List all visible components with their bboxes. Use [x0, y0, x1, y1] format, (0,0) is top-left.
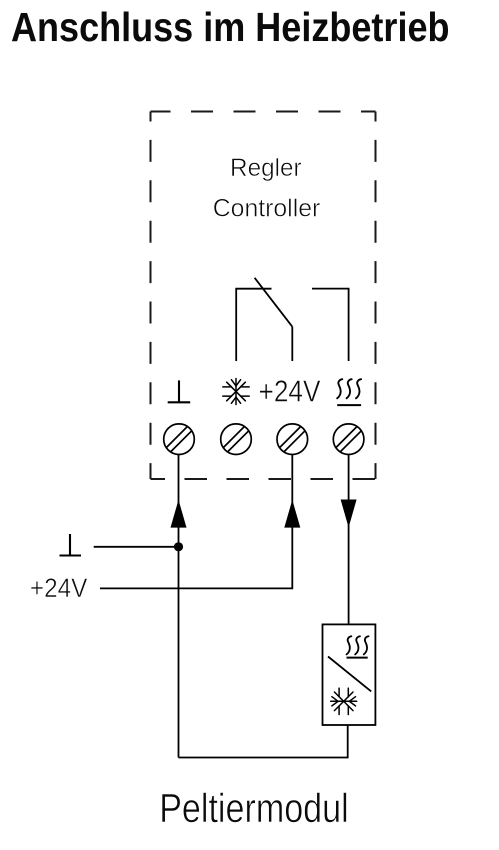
ground symbol left	[60, 534, 82, 556]
wire ground to junction	[94, 546, 179, 548]
switch S1 (changeover contact)	[236, 278, 348, 361]
peltier module box	[323, 624, 376, 725]
junction dot	[174, 542, 183, 551]
svg-text:+24V: +24V	[30, 573, 88, 603]
up arrow wire 2	[284, 500, 300, 528]
wire bottom: junction corner to peltier bottom	[179, 725, 348, 758]
terminal 1	[164, 424, 195, 455]
svg-text:+24V: +24V	[259, 374, 321, 409]
snowflake symbol in peltier	[331, 688, 357, 714]
heat label terminal 4	[337, 379, 361, 405]
up arrow wire 1	[171, 500, 187, 528]
terminal 2	[221, 424, 252, 455]
ground label terminal 1	[168, 380, 191, 402]
terminal 3	[277, 424, 308, 455]
wire +24V to terminal 3	[100, 455, 292, 589]
controller dashed box	[151, 112, 376, 480]
diagonal divider in peltier	[328, 657, 371, 692]
svg-text:Controller: Controller	[213, 195, 321, 223]
snowflake label terminal 2	[223, 379, 249, 405]
wire terminal4 down to peltier	[348, 455, 350, 625]
down arrow wire 3	[341, 500, 357, 528]
wire terminal1 down to bottom corner	[178, 455, 180, 758]
svg-text:Peltiermodul: Peltiermodul	[159, 785, 349, 831]
svg-text:Regler: Regler	[230, 154, 302, 182]
svg-text:Anschluss im Heizbetrieb: Anschluss im Heizbetrieb	[11, 4, 450, 50]
terminal 4	[333, 424, 364, 455]
heat symbol in peltier	[347, 636, 369, 657]
